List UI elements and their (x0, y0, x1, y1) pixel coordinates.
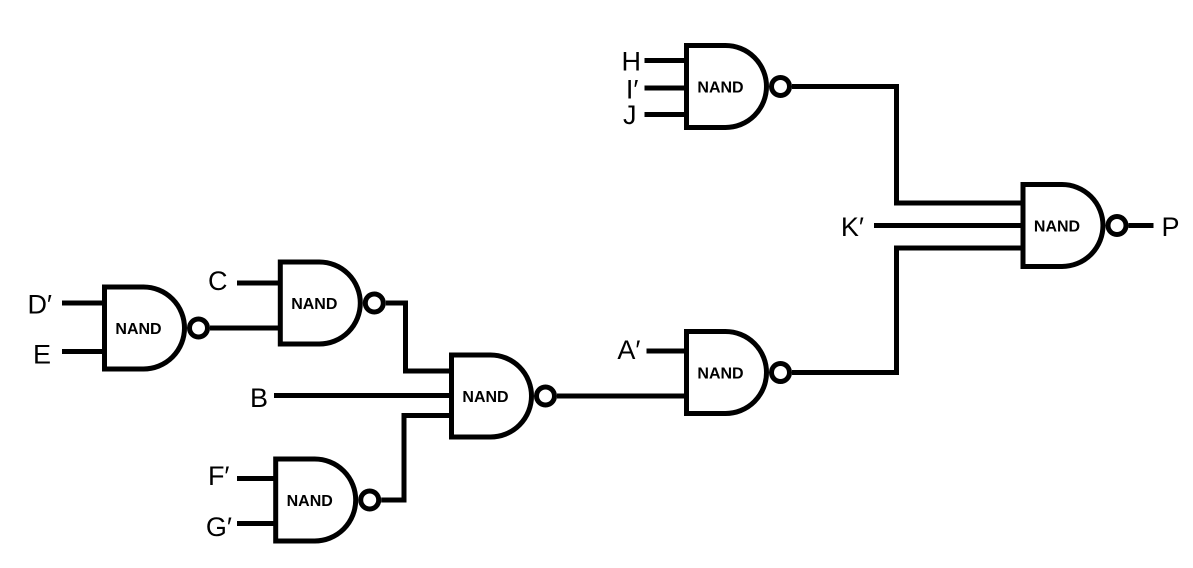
wire input K' (874, 223, 1024, 228)
NAND gate G7 (inputs A', G4 output) (687, 332, 790, 414)
wire input H (645, 58, 689, 63)
NAND gate G5 (inputs C, G3 output) (280, 262, 383, 344)
svg-text:J: J (623, 100, 637, 130)
NAND gate G6 (inputs F', G') (276, 459, 379, 541)
wire from G6 output to G4 bottom input (381, 416, 453, 501)
svg-text:G′: G′ (206, 512, 232, 542)
svg-text:C: C (208, 266, 228, 296)
svg-text:NAND: NAND (291, 296, 337, 313)
wire input I' (645, 86, 689, 91)
NAND gate G3 (inputs D', E) (105, 287, 208, 369)
wire from G3 output to G5 lower input (210, 326, 282, 331)
svg-text:NAND: NAND (697, 80, 743, 97)
wire input J (645, 112, 689, 117)
svg-text:B: B (250, 383, 268, 413)
svg-text:F′: F′ (208, 461, 230, 491)
wire input A' (647, 349, 689, 354)
NAND gate G2 (output P, inputs from G1, K', G7) (1023, 185, 1126, 267)
svg-text:NAND: NAND (287, 493, 333, 510)
wire from G7 output to G2 bottom input (792, 248, 1024, 373)
wire input B (274, 393, 453, 398)
svg-text:NAND: NAND (697, 366, 743, 383)
wire from G4 output to G7 lower input (557, 394, 688, 399)
svg-text:K′: K′ (841, 212, 864, 242)
wire input F' (237, 476, 277, 481)
wire input C (237, 281, 282, 286)
wire from G1 output to G2 top input (792, 87, 1024, 204)
NAND gate G4 (inputs from G5, B, G6) (452, 355, 555, 437)
svg-text:A′: A′ (617, 335, 640, 365)
svg-text:P: P (1162, 212, 1180, 242)
svg-text:E: E (33, 340, 51, 370)
svg-text:NAND: NAND (1034, 219, 1080, 236)
wire input D' (62, 301, 106, 306)
svg-text:NAND: NAND (462, 389, 508, 406)
wire from G5 output to G4 top input (386, 303, 453, 371)
NAND gate G1 (inputs H, I', J) (687, 46, 790, 128)
svg-text:H: H (622, 47, 642, 77)
svg-text:D′: D′ (27, 290, 52, 320)
svg-text:NAND: NAND (115, 321, 161, 338)
wire input G' (237, 521, 277, 526)
wire input E (62, 349, 106, 354)
wire output P (1129, 223, 1154, 228)
